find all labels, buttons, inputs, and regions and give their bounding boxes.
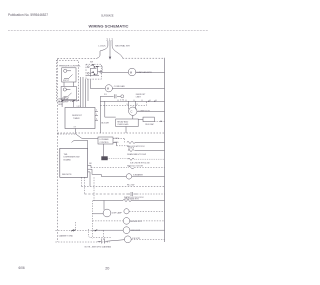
door switch dashed box (86, 64, 101, 79)
svg-text:SEE NOTE: SEE NOTE (58, 101, 69, 103)
ground junction (71, 230, 75, 232)
svg-text:LOW AMB: LOW AMB (100, 138, 110, 141)
svg-text:CONTROL: CONTROL (100, 142, 109, 144)
svg-text:FREEZER CONTROL: FREEZER CONTROL (59, 65, 81, 67)
refrigerator light switch (64, 90, 72, 97)
svg-text:FRZ LT: FRZ LT (63, 80, 70, 82)
run capacitor box (143, 117, 154, 122)
dispenser solenoid lamp (124, 236, 131, 243)
timer terminals right (95, 111, 98, 120)
compressor start/run drops (128, 101, 135, 109)
wire cluster to evap fan rung (96, 66, 99, 68)
svg-text:20: 20 (105, 267, 109, 271)
wire relay box to ground row (125, 127, 127, 134)
svg-text:AUGER MTR: AUGER MTR (131, 220, 143, 223)
svg-text:C: C (130, 110, 132, 114)
big box right stubs (88, 165, 102, 186)
svg-text:ICEMAKER: ICEMAKER (133, 173, 144, 176)
auxiliary dashed run under terminal rung (100, 101, 146, 105)
ADC wires right (113, 138, 125, 140)
right neutral bus (164, 58, 166, 242)
ADC red wire to drain heater (113, 143, 117, 146)
refrigerator light box (61, 87, 76, 100)
evap fan motor (128, 68, 136, 76)
wire relay to run capacitor (138, 119, 143, 121)
wire capacitor to bus (154, 120, 164, 122)
freezer light box (62, 68, 76, 82)
ground dashed line right (123, 57, 165, 59)
svg-text:MULLION HTR 115V: MULLION HTR 115V (127, 146, 145, 148)
aux connector block (102, 157, 108, 161)
plug prong neutral (112, 41, 122, 58)
ground run under light boxes (62, 100, 79, 102)
svg-text:NOTE - SEE WTG DIAGRAM: NOTE - SEE WTG DIAGRAM (85, 245, 112, 248)
wire cluster bottom drops (80, 77, 82, 107)
svg-text:BK: BK (89, 163, 92, 165)
terminal rung (100, 100, 164, 102)
svg-text:M: M (107, 87, 110, 91)
terminal ticks (118, 100, 156, 102)
cabinet ground dashed row (55, 229, 103, 231)
ground dashed row (58, 132, 165, 134)
freezer light switch (64, 71, 73, 79)
svg-text:BLK-WH: BLK-WH (101, 122, 109, 124)
verticals below big box (80, 177, 82, 186)
wire timer to ADC (76, 129, 98, 139)
compressor wire to bus (137, 110, 165, 112)
wire lamp column down to timer (61, 101, 63, 107)
svg-text:TML: TML (64, 154, 69, 156)
left cabinet ground rail (dashed) (57, 59, 59, 243)
ADC wire down to aux (102, 144, 104, 157)
ADC box (98, 137, 113, 144)
cond fan rung (90, 88, 105, 90)
drain heater row (128, 150, 134, 152)
dispenser lamp row (92, 213, 103, 215)
ground dashed line left (58, 58, 97, 60)
hinge heater row (128, 158, 134, 160)
svg-text:WIRING SCHEMATIC: WIRING SCHEMATIC (89, 23, 129, 28)
svg-text:CABINET GND: CABINET GND (59, 235, 74, 238)
svg-text:2: 2 (96, 110, 97, 112)
auger motor row (92, 220, 123, 222)
svg-text:OVERLOAD: OVERLOAD (117, 123, 129, 126)
compressor motor (129, 107, 137, 115)
svg-text:COND FAN: COND FAN (114, 85, 125, 88)
svg-text:NEUTRAL WH: NEUTRAL WH (115, 45, 130, 48)
svg-text:LIMIT: LIMIT (136, 97, 142, 99)
svg-text:RELAY AND: RELAY AND (117, 120, 129, 123)
svg-text:DISPENSER SW: DISPENSER SW (64, 157, 80, 159)
wire into big box top (72, 140, 88, 148)
svg-text:DRAIN PAN HTR 10W: DRAIN PAN HTR 10W (127, 153, 146, 156)
svg-text:EVAP FAN MTR: EVAP FAN MTR (137, 71, 153, 74)
drop to dispenser switch row (103, 230, 105, 241)
svg-text:M: M (130, 70, 133, 74)
connector row (128, 167, 134, 169)
dispenser switch (98, 239, 125, 244)
row 194 water valve (85, 193, 127, 195)
ice door solenoid row (92, 229, 123, 231)
svg-text:SEE NOTE: SEE NOTE (62, 174, 72, 176)
defrost timer box (65, 108, 95, 129)
mullion heater row (127, 141, 135, 143)
junction dots under light boxes (61, 100, 62, 101)
svg-text:2 3 4: 2 3 4 (120, 100, 124, 102)
relay and overload box (116, 119, 139, 127)
plug prong L1 (96, 41, 108, 59)
freezer lamp (64, 69, 67, 72)
svg-text:HTR DUCT DOOR: HTR DUCT DOOR (127, 166, 143, 168)
compressor feed wire (105, 101, 116, 117)
svg-text:SW: SW (90, 62, 93, 64)
svg-text:1: 1 (96, 114, 97, 116)
wires between light boxes (63, 82, 65, 87)
bottom dashed row (55, 241, 110, 243)
svg-text:BLK: BLK (131, 148, 135, 150)
svg-text:ICE CHUTE HTR 4.5W: ICE CHUTE HTR 4.5W (130, 162, 150, 164)
svg-text:WTR TANK HTR: WTR TANK HTR (125, 197, 140, 200)
svg-text:6/06: 6/06 (19, 266, 25, 270)
svg-text:D1: D1 (104, 94, 108, 96)
plug prong ground (109, 41, 111, 57)
svg-text:ICE DOOR: ICE DOOR (131, 230, 141, 232)
door switch contacts (87, 65, 100, 77)
illumination dashed box (56, 60, 78, 101)
svg-text:FILL SW: FILL SW (127, 185, 134, 187)
svg-text:SLRS64ZE: SLRS64ZE (101, 14, 114, 17)
row 200.5 heater (93, 200, 123, 202)
condenser fan motor (105, 85, 112, 92)
svg-text:Publication No. 5995446527: Publication No. 5995446527 (8, 13, 48, 17)
evap fan rung (102, 71, 128, 73)
ground arrow (109, 57, 111, 60)
svg-text:BOARD: BOARD (64, 158, 72, 161)
header dotted rule (8, 30, 208, 32)
refrigerator lamp (63, 88, 66, 91)
svg-text:LIGHTS (2): LIGHTS (2) (58, 98, 69, 100)
water solenoid row (91, 236, 111, 238)
svg-text:TIMER: TIMER (73, 118, 80, 120)
drop from tank heater row (103, 201, 105, 210)
defrost thermostat (99, 96, 101, 133)
svg-text:4: 4 (96, 119, 97, 121)
row 186 dashed (81, 185, 164, 187)
wire compressor to relay box (132, 115, 134, 119)
big dispenser control box (60, 148, 88, 177)
svg-text:DISP LAMP: DISP LAMP (112, 211, 123, 214)
wire to icemaker row (101, 175, 126, 177)
dashed stub left of timer bottom (58, 133, 76, 135)
svg-text:RUN CAP: RUN CAP (145, 123, 154, 126)
icemaker motor row (126, 174, 131, 179)
svg-text:L1 BLK: L1 BLK (98, 45, 106, 47)
connector (100, 71, 102, 73)
